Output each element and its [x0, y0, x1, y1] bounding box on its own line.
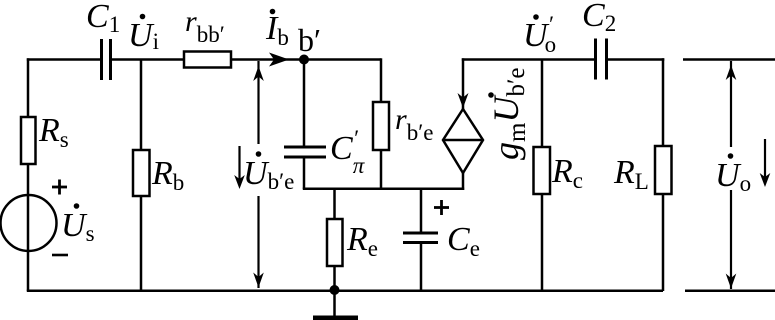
resistor R_c	[534, 147, 551, 194]
svg-text:U′o: U′o	[523, 12, 556, 57]
capacitor C2	[596, 39, 607, 80]
svg-text:Rb: Rb	[151, 155, 184, 195]
wire C1 to r_bb' and to b' corner	[111, 58, 382, 61]
svg-text:C′π: C′π	[330, 126, 366, 178]
voltage source U_s circle	[1, 195, 57, 251]
label gm U_b'e rotated with dot	[486, 67, 531, 160]
label U_i with dot	[128, 14, 159, 54]
ground node junction dot	[330, 285, 340, 295]
wire bottom-right output port segment	[685, 290, 775, 293]
wire C_e branch lower	[420, 243, 423, 292]
node b' junction dot	[299, 55, 309, 65]
wire top collector segment from diamond to C2	[462, 58, 595, 61]
svg-text:Rc: Rc	[551, 153, 583, 193]
arrow U_o measure line upper segment with up arrowhead	[726, 61, 737, 147]
wire C'pi to mid rail	[303, 157, 306, 189]
ground stem	[333, 291, 336, 316]
wire R_e branch lower	[333, 266, 336, 291]
resistor R_s	[21, 117, 36, 164]
plus sign of U_s	[52, 180, 67, 195]
capacitor C_e	[403, 233, 438, 243]
wire b' down to C'pi	[303, 60, 306, 147]
resistor R_L	[655, 146, 672, 194]
svg-text:Uo: Uo	[715, 157, 751, 196]
arrow U_b'e measure line lower segment with down arrowhead	[253, 196, 264, 288]
capacitor C'pi	[284, 147, 326, 157]
wire C2 to R_L corner	[607, 58, 665, 61]
svg-text:gmUb′e: gmUb′e	[486, 67, 531, 160]
wire r_b'e branch lower	[380, 150, 383, 190]
arrow on dependent source lead (down into diamond)	[458, 93, 469, 108]
resistor r_b'e	[373, 102, 389, 150]
resistor R_b	[133, 150, 150, 196]
wire R_L branch upper	[662, 58, 665, 146]
wire bottom main	[27, 290, 663, 293]
dependent current source diamond gm Ub'e	[443, 109, 483, 173]
label U_b'e with dot	[243, 151, 294, 194]
svg-text:b′: b′	[298, 22, 321, 58]
resistor r_bb'	[184, 52, 231, 68]
svg-text:Re: Re	[346, 221, 378, 261]
plus sign of C_e	[434, 200, 449, 215]
wire R_L branch lower	[662, 194, 665, 291]
wire left vertical upper (to R_s)	[27, 58, 30, 117]
wire R_c branch lower	[541, 194, 544, 291]
arrow U_o measure line lower segment with down arrowhead	[726, 190, 737, 289]
wire R_s to source circle and through to bottom	[27, 164, 30, 291]
svg-text:rb′e: rb′e	[395, 103, 433, 145]
svg-text:rbb′: rbb′	[185, 5, 225, 47]
svg-text:Rs: Rs	[38, 112, 69, 152]
capacitor C1	[102, 39, 111, 80]
label I_b with dot	[265, 9, 289, 50]
wire C_e branch upper	[420, 189, 423, 233]
wire R_b branch upper	[140, 60, 143, 151]
ground bar	[313, 316, 358, 320]
wire mid emitter rail	[303, 188, 464, 191]
wire dependent source bottom lead	[462, 173, 465, 190]
svg-text:Ce: Ce	[447, 221, 480, 261]
label U'_o with dot	[523, 12, 556, 57]
arrow small down (U_b'e polarity)	[234, 146, 245, 189]
label U_s with dot	[61, 203, 95, 246]
svg-text:RL: RL	[613, 154, 649, 194]
svg-text:C1: C1	[86, 0, 120, 37]
arrow small down (U_o polarity)	[760, 139, 771, 187]
wire dependent source top lead	[462, 58, 465, 109]
wire R_b branch lower	[140, 196, 143, 291]
wire R_c branch upper	[541, 60, 544, 148]
minus sign of U_s	[52, 254, 68, 257]
svg-text:Ub′e: Ub′e	[243, 155, 294, 194]
arrow I_b on wire	[269, 53, 289, 67]
wire r_b'e branch upper	[380, 58, 383, 102]
svg-text:C2: C2	[582, 0, 616, 36]
arrow U_b'e measure line upper segment with up arrowhead	[253, 61, 264, 144]
resistor R_e	[327, 219, 343, 266]
svg-text:Ui: Ui	[128, 17, 159, 54]
label U_o with dot	[715, 153, 751, 196]
svg-text:Ib: Ib	[265, 10, 289, 50]
svg-text:Us: Us	[61, 207, 95, 246]
wire R_e branch upper	[333, 189, 336, 219]
dot of rotated U_b'e	[488, 92, 494, 98]
wire top-left from source branch to C1	[27, 58, 101, 61]
wire top-right output port segment	[683, 58, 775, 61]
